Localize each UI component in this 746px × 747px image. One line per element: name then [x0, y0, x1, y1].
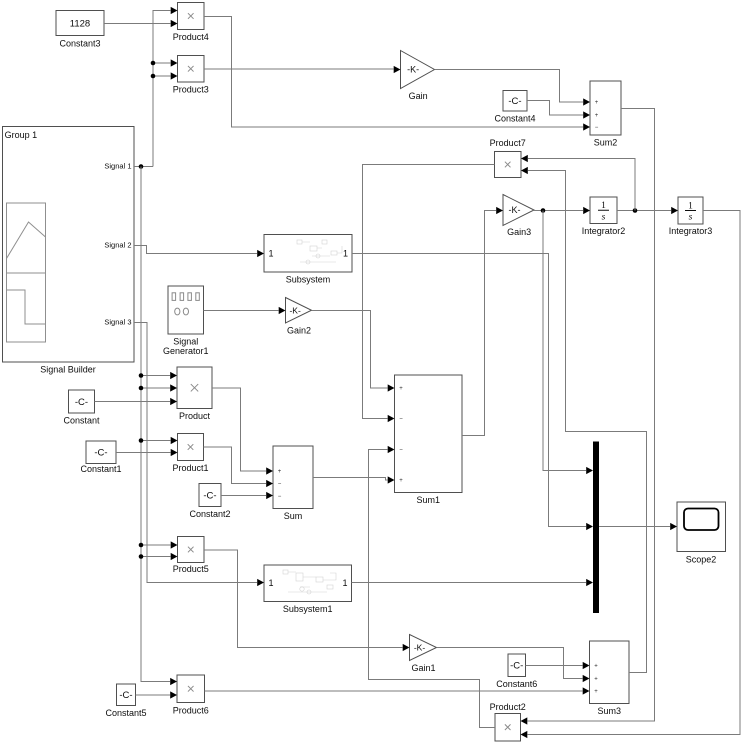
wire Constant5 to Product6 in2 [136, 691, 178, 698]
svg-text:1: 1 [269, 249, 274, 259]
block Integrator3 (1/s) [669, 197, 713, 236]
block Constant3 (value 1128) [56, 11, 104, 49]
block Gain3 [503, 195, 534, 238]
wire Constant4 to Sum2 in2 [527, 101, 590, 119]
svg-text:+: + [594, 689, 598, 695]
wire Signal 2 to Subsystem [134, 246, 264, 258]
block Subsystem [264, 235, 352, 285]
wire Sum3 to Product7 in2 [521, 167, 647, 673]
wire Subsystem1 to Mux in3 [352, 579, 594, 586]
wire Signal1 trunk down to Product6 in1 [141, 167, 177, 686]
wire Constant6 to Sum3 in1 [526, 662, 590, 669]
wire Mux to Scope2 [599, 523, 677, 530]
junction at Gain3 output [541, 208, 546, 213]
wire Signal1 branch to Product5 in1 [141, 541, 178, 548]
svg-text:Constant2: Constant2 [189, 509, 230, 519]
junction on Signal1 riser at Product3 in2 [151, 74, 156, 79]
svg-text:Product2: Product2 [490, 702, 526, 712]
block Product2 (mirrored) [490, 702, 526, 741]
svg-text:Constant: Constant [63, 416, 100, 426]
svg-text:−: − [399, 448, 403, 454]
svg-text:Sum: Sum [284, 511, 303, 521]
svg-text:-K-: -K- [289, 305, 301, 315]
svg-text:Signal Builder: Signal Builder [40, 365, 96, 375]
junction at Product in2 branch [139, 386, 144, 391]
block Product6 [173, 675, 209, 716]
svg-text:Gain: Gain [409, 91, 428, 101]
svg-text:+: + [595, 113, 599, 119]
wire Product5 to Gain1 [204, 550, 410, 651]
mux (black bar) [593, 442, 599, 614]
block Sum1 [395, 375, 463, 505]
svg-text:1: 1 [343, 249, 348, 259]
svg-text:-C-: -C- [119, 690, 132, 701]
svg-text:Sum3: Sum3 [597, 706, 621, 716]
block Integrator2 (1/s) [582, 197, 626, 236]
svg-text:Product7: Product7 [490, 138, 526, 148]
block Constant1 [80, 441, 121, 474]
wire Gain2 to Sum1 in1 [312, 311, 395, 392]
block Gain [401, 51, 435, 102]
wire Constant3 to Product4 in2 [104, 20, 178, 27]
wire Sum1 to Gain3 [462, 207, 503, 436]
wire Gain1 to Sum3 in2 [437, 648, 590, 683]
signal builder waveform preview [7, 203, 46, 342]
svg-text:Group 1: Group 1 [5, 130, 38, 140]
wire Signal1 branch to Product1 in1 [141, 437, 178, 444]
svg-text:Product5: Product5 [173, 564, 209, 574]
svg-text:+: + [594, 677, 598, 683]
svg-text:1: 1 [342, 578, 347, 588]
svg-text:-K-: -K- [407, 65, 419, 75]
svg-text:Gain1: Gain1 [412, 663, 436, 673]
svg-text:-C-: -C- [75, 397, 88, 408]
svg-text:+: + [399, 478, 403, 484]
block Constant [63, 390, 100, 426]
svg-text:Sum2: Sum2 [594, 138, 618, 148]
svg-text:-C-: -C- [508, 96, 521, 107]
wire Product4 to Sum2 in3 [204, 17, 590, 131]
wire Subsystem to Mux in2 [352, 254, 593, 531]
wire Signal1 branch to Product in2 [141, 384, 177, 391]
svg-text:Product4: Product4 [173, 32, 209, 42]
wire Signal 3 to Subsystem1 [134, 323, 264, 587]
wire Product6 to Sum3 in3 [205, 687, 590, 694]
svg-text:-C-: -C- [94, 448, 107, 459]
svg-text:1: 1 [688, 201, 693, 211]
svg-text:s: s [602, 212, 606, 222]
wire Sum2 to Product2 in1 [521, 109, 655, 725]
wire Product7 to Sum1 in2 [363, 165, 495, 423]
wire Product3 to Gain [204, 66, 401, 73]
block Constant4 [494, 91, 535, 124]
svg-text:−: − [278, 482, 282, 488]
svg-text:Subsystem: Subsystem [286, 275, 331, 285]
svg-text:−: − [595, 125, 599, 131]
svg-text:Product: Product [179, 411, 211, 421]
svg-text:Scope2: Scope2 [686, 555, 717, 565]
block Constant6 [496, 654, 537, 689]
block Product5 [173, 537, 209, 575]
svg-text:Product3: Product3 [173, 85, 209, 95]
svg-text:Sum1: Sum1 [416, 495, 440, 505]
svg-text:Subsystem1: Subsystem1 [283, 604, 333, 614]
svg-text:+: + [594, 664, 598, 670]
svg-text:−: − [278, 494, 282, 500]
wire Signal1 branch to Product3 in1 [153, 59, 178, 66]
block Subsystem1 [264, 565, 352, 614]
subsystem1 contents thumbnail [283, 570, 336, 594]
svg-text:Constant5: Constant5 [105, 708, 146, 718]
block Product4 [173, 3, 209, 43]
wire Constant to Product in3 [95, 398, 178, 405]
wire Gain3 to Integrator2 [534, 207, 590, 214]
wire Signal1 branch to Product in1 [141, 372, 177, 379]
block Gain1 [410, 635, 437, 674]
svg-text:Signal 2: Signal 2 [104, 241, 131, 250]
wire Product1 to Sum in2 [204, 447, 274, 487]
svg-text:Generator1: Generator1 [163, 346, 209, 356]
wire Signal Generator1 to Gain2 [204, 307, 286, 314]
block Signal Builder (Group 1, Signals 1-3) [3, 127, 135, 375]
block Product [177, 367, 212, 421]
block Signal Generator1 [163, 286, 209, 356]
block Product7 (mirrored) [490, 138, 526, 178]
wire Signal 1 trunk (right then up to Product4 in1) [134, 7, 178, 167]
wire Gain to Sum2 in1 [435, 70, 591, 106]
svg-text:s: s [689, 213, 693, 223]
svg-text:1: 1 [269, 578, 274, 588]
svg-text:Integrator3: Integrator3 [669, 226, 713, 236]
svg-text:-C-: -C- [203, 490, 216, 501]
junction at Product1 in1 branch [139, 438, 144, 443]
block Sum [273, 446, 313, 521]
svg-text:Gain2: Gain2 [287, 326, 311, 336]
block Product3 [173, 56, 209, 95]
junction Signal1 node [139, 164, 144, 169]
wire Integrator2 to Integrator3 [617, 207, 678, 214]
subsystem contents thumbnail [297, 240, 342, 264]
wire Product to Sum in1 [212, 388, 273, 475]
block Product1 [172, 434, 208, 474]
wire Sum to Sum1 in4 [313, 476, 395, 483]
wire Signal1 branch to Product3 in2 [153, 72, 178, 79]
svg-text:-C-: -C- [510, 661, 523, 672]
svg-text:Integrator2: Integrator2 [582, 226, 626, 236]
svg-text:+: + [278, 469, 282, 475]
block Gain2 [286, 298, 312, 336]
svg-text:Constant1: Constant1 [80, 464, 121, 474]
wire Integrator2 branch to Product7 in1 [521, 155, 635, 211]
svg-text:Product6: Product6 [173, 706, 209, 716]
junction at Integrator2 output [633, 208, 638, 213]
junction at Product5 in1 branch [139, 543, 144, 548]
wire Signal1 branch to Product5 in2 [141, 553, 178, 560]
wire Integrator3 to Product2 in2 [521, 211, 741, 739]
svg-text:-K-: -K- [508, 205, 520, 215]
junction at Product in1 branch [139, 373, 144, 378]
wire Constant1 to Product1 in2 [116, 449, 178, 456]
svg-text:-K-: -K- [414, 643, 426, 653]
wire Gain3 branch to Mux in1 [543, 211, 593, 475]
svg-text:1: 1 [601, 201, 606, 211]
svg-text:Signal 3: Signal 3 [104, 318, 131, 327]
svg-text:Constant4: Constant4 [494, 114, 535, 124]
svg-text:1128: 1128 [70, 18, 90, 29]
block Sum3 [590, 641, 630, 716]
wire Constant2 to Sum in3 [221, 492, 273, 499]
svg-text:Constant6: Constant6 [496, 679, 537, 689]
svg-text:+: + [399, 386, 403, 392]
svg-text:Gain3: Gain3 [507, 227, 531, 237]
svg-text:Product1: Product1 [172, 463, 208, 473]
svg-text:Signal 1: Signal 1 [104, 162, 131, 171]
junction on Signal1 riser at Product3 in1 [151, 61, 156, 66]
svg-text:Signal: Signal [173, 337, 198, 347]
svg-text:−: − [399, 417, 403, 423]
block Scope2 [677, 502, 726, 565]
wire Product2 to Sum1 in3 [369, 446, 496, 728]
svg-text:Constant3: Constant3 [59, 39, 100, 49]
svg-text:+: + [595, 100, 599, 106]
block Sum2 [590, 81, 621, 148]
junction at Product5 in2 branch [139, 554, 144, 559]
block Constant5 [105, 684, 146, 718]
block Constant2 [189, 484, 230, 520]
